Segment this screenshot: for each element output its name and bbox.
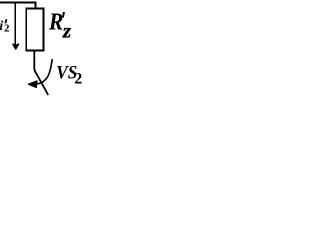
prime mark of i — [5, 19, 6, 23]
svg-text:R: R — [48, 7, 63, 35]
svg-text:i: i — [0, 18, 3, 33]
curved arrow of voltage source VS2 (points left through wire) — [37, 59, 52, 84]
svg-text:2: 2 — [4, 23, 10, 35]
wire: left branch wire for current arrow i'2 — [14, 2, 16, 45]
wire: top horizontal wire from left edge to box drop — [0, 2, 36, 4]
svg-text:z: z — [62, 19, 72, 43]
arrowhead of VS2 arrow pointing left — [29, 81, 37, 87]
wire: vertical stub from top wire down into box top — [35, 3, 37, 9]
arrowhead of current i'2 pointing down — [13, 44, 19, 49]
resistor R'z box (rectangle symbol) — [26, 8, 43, 50]
prime mark of R — [63, 12, 64, 18]
svg-text:2: 2 — [74, 71, 82, 88]
wire: from box bottom curving down-right, crosses source arrow — [34, 51, 48, 95]
